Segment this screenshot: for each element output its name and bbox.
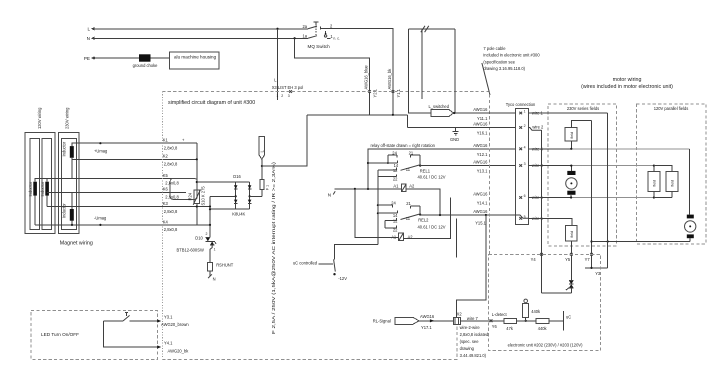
svg-text:K5: K5 xyxy=(163,173,169,178)
svg-text:wire 7: wire 7 xyxy=(467,316,479,321)
diode D16 top-right xyxy=(248,182,252,209)
wire L branch to relays riser xyxy=(262,115,307,166)
svg-text:Inductor: Inductor xyxy=(28,181,33,196)
wire switched L to X3 xyxy=(321,29,395,115)
label Y16.1 xyxy=(477,131,488,136)
node -12V xyxy=(333,273,347,281)
svg-text:AWG16_bk: AWG16_bk xyxy=(387,68,392,90)
svg-text:included in electronic unit #3: included in electronic unit #300 xyxy=(483,53,540,58)
wire bridge bottom bar xyxy=(210,208,250,210)
node L label xyxy=(87,27,90,32)
label AWG16 wire6 xyxy=(473,192,488,197)
svg-text:D16: D16 xyxy=(233,174,241,179)
junction wire5 Ldetect xyxy=(485,214,487,216)
svg-text:REL2: REL2 xyxy=(418,217,429,222)
wire5 drop to L-detect xyxy=(457,215,486,317)
svg-text:-12V: -12V xyxy=(338,276,347,281)
junction wire5 A2 xyxy=(439,214,441,216)
junction bridge AC right xyxy=(249,195,263,197)
svg-text:AWG16: AWG16 xyxy=(473,192,488,197)
junction K2 drop xyxy=(196,158,198,160)
wire triac bottom to Y4 xyxy=(542,288,572,293)
label REL1 xyxy=(420,169,431,174)
svg-text:AWG16_blue: AWG16_blue xyxy=(363,65,368,90)
svg-text:(spec. see: (spec. see xyxy=(460,339,480,344)
label AWG16 wire5 xyxy=(473,209,488,214)
junction N rail REL2 tap xyxy=(354,188,356,190)
relay REL2 coil xyxy=(391,233,413,240)
svg-text:AWG16: AWG16 xyxy=(473,107,488,112)
Tyco connection label xyxy=(506,102,536,107)
junction bridge AC left xyxy=(210,195,237,197)
wire 3 continuation xyxy=(529,165,654,167)
inductor ground choke xyxy=(133,54,159,68)
MQ Switch contact 1 lead xyxy=(327,34,340,41)
svg-text:1: 1 xyxy=(276,94,278,98)
svg-text:A2: A2 xyxy=(409,184,415,189)
wire K4 xyxy=(35,196,210,225)
svg-text:AWG16: AWG16 xyxy=(473,122,488,127)
wire motor230 top tap xyxy=(570,165,572,171)
label Y17.1 xyxy=(421,325,432,330)
MQ Switch label xyxy=(308,44,331,49)
svg-text:uC: uC xyxy=(566,315,571,320)
junction bk at node xyxy=(392,114,394,116)
svg-text:2,8x0,8: 2,8x0,8 xyxy=(165,181,179,186)
svg-text:LED Turn On/OFF: LED Turn On/OFF xyxy=(41,332,79,337)
svg-text:21: 21 xyxy=(406,201,411,206)
wire drop to wire2 xyxy=(407,115,409,128)
label relay off-state note xyxy=(371,143,436,148)
svg-text:Y3.1: Y3.1 xyxy=(164,314,173,319)
wire5 stub drop xyxy=(455,218,457,257)
svg-text:Y14.1: Y14.1 xyxy=(477,201,488,206)
wire D10 to shunt xyxy=(210,245,212,262)
label D16 xyxy=(233,174,241,179)
label Y11.1 xyxy=(477,116,488,121)
svg-text:22: 22 xyxy=(393,176,398,181)
wire cable segment top xyxy=(409,28,455,30)
label Y3 xyxy=(595,271,601,276)
label AWG20_brown xyxy=(161,322,189,327)
svg-text:D10: D10 xyxy=(195,235,203,240)
label RL-Signal xyxy=(373,318,391,323)
svg-text:11: 11 xyxy=(406,216,411,221)
svg-text:Y5: Y5 xyxy=(565,257,571,262)
label Y4.1 xyxy=(164,340,173,345)
label REL2 xyxy=(418,217,429,222)
diode D16 bottom-right xyxy=(248,200,252,204)
relay REL2 contact 22 xyxy=(385,220,398,232)
relay REL1 contact 21 xyxy=(409,150,421,165)
net label AWG16_blue rotated xyxy=(363,65,368,90)
wire K5 xyxy=(35,178,186,181)
relay REL2 contact 24 xyxy=(378,200,397,207)
magnet 120V outer box xyxy=(25,133,55,234)
junction field1 bottom xyxy=(570,141,572,150)
inductor 120V right xyxy=(40,181,49,196)
svg-text:F 1: F 1 xyxy=(266,185,270,190)
svg-text:12: 12 xyxy=(393,168,398,173)
junction N rail riser tap xyxy=(367,188,369,190)
svg-text:230V series fields: 230V series fields xyxy=(567,106,599,111)
terminal K5 labels xyxy=(163,173,180,186)
rotated label 120V wiring xyxy=(37,107,42,129)
svg-text:alu machine housing: alu machine housing xyxy=(174,54,217,59)
K5 K6 rounded outline xyxy=(170,179,197,200)
resistor 440k vertical xyxy=(523,299,541,321)
svg-text:7 pole cable: 7 pole cable xyxy=(483,46,506,51)
svg-text:21: 21 xyxy=(409,150,414,155)
label Y12.1 xyxy=(477,152,488,157)
svg-text:field: field xyxy=(570,231,574,237)
wire joined node horizontal xyxy=(307,114,407,116)
svg-text:(wires included in motor elect: (wires included in motor electronic unit… xyxy=(581,84,673,90)
wire AC left to D10 riser xyxy=(209,196,211,237)
relay REL1 contact 22 xyxy=(378,170,398,182)
MQ Switch contact 2 xyxy=(321,23,333,29)
unit 300 top boundary dashed xyxy=(162,91,489,93)
junction -Umag xyxy=(71,215,107,226)
unit 300 bottom boundary dashed xyxy=(162,324,457,360)
svg-text:Y3: Y3 xyxy=(595,271,601,276)
svg-text:field: field xyxy=(570,132,574,138)
svg-text:440k: 440k xyxy=(538,326,548,331)
230V series fields dashed box xyxy=(548,104,617,246)
LED box dashed xyxy=(31,310,157,359)
svg-text:40.61 / DC 12V: 40.61 / DC 12V xyxy=(418,174,446,179)
svg-text:simplified circuit diagram of: simplified circuit diagram of unit #300 xyxy=(168,100,255,106)
svg-text:K1: K1 xyxy=(163,138,169,143)
label Y15.1 xyxy=(475,220,486,225)
svg-text:24: 24 xyxy=(392,150,397,155)
Tyco pin 5 xyxy=(519,215,543,221)
svg-text:drawing 3.16.95.118.0): drawing 3.16.95.118.0) xyxy=(483,66,525,71)
wire K1 xyxy=(72,143,197,146)
svg-text:Y1.1: Y1.1 xyxy=(396,88,401,97)
junction rail Y7 xyxy=(590,240,592,242)
wire motor rail xyxy=(592,240,691,242)
Tyco connector box xyxy=(516,109,529,225)
net tag RL hexagon xyxy=(395,317,419,324)
magnet 120V inner box B xyxy=(42,139,52,230)
junction on L line xyxy=(276,28,278,30)
wire REL2 A1 to N xyxy=(355,189,399,237)
wire cable stub down xyxy=(421,29,423,99)
wire shunt to N tag xyxy=(209,271,211,276)
wire N line xyxy=(92,37,308,39)
cable hash marks xyxy=(421,26,429,32)
wire L_switched left drop xyxy=(409,29,431,113)
wire 4 continuation xyxy=(529,148,690,150)
svg-text:2: 2 xyxy=(281,94,283,98)
svg-text:A1: A1 xyxy=(393,184,399,189)
wire REL1 A2 to wire5 xyxy=(406,189,440,215)
switch uC controlled xyxy=(293,259,335,271)
ground GND xyxy=(450,128,459,142)
junction L_switched xyxy=(453,112,455,114)
svg-text:Inductor: Inductor xyxy=(61,203,66,218)
svg-text:(specification see: (specification see xyxy=(483,59,515,64)
wire bridge top bar xyxy=(197,181,250,183)
svg-text:n. c.: n. c. xyxy=(333,37,340,41)
svg-text:wire 2: wire 2 xyxy=(532,125,544,130)
svg-text:1a: 1a xyxy=(302,34,307,39)
svg-text:2,8x0,8: 2,8x0,8 xyxy=(164,146,178,151)
alu machine housing box xyxy=(170,52,220,69)
relay REL2 blade 11 xyxy=(401,214,422,221)
wire 5 continuation xyxy=(516,215,572,225)
label Y5 xyxy=(565,257,571,262)
Tyco pin 1 xyxy=(519,110,543,116)
fuse F1 xyxy=(260,159,270,196)
terminal K3 labels xyxy=(163,201,178,214)
Tyco pin 4 xyxy=(519,145,543,151)
svg-text:Inductor: Inductor xyxy=(40,181,45,196)
label Magnet wiring xyxy=(60,241,93,247)
svg-text:22: 22 xyxy=(393,227,398,232)
svg-text:Y13.1: Y13.1 xyxy=(477,169,488,174)
label wire 7 xyxy=(467,316,479,321)
relay REL2 common 14 xyxy=(378,211,398,218)
unit 300 left boundary dotted xyxy=(161,92,163,360)
svg-text:2a: 2a xyxy=(302,24,307,29)
svg-text:14: 14 xyxy=(394,163,399,168)
riser Y4 xyxy=(540,130,543,293)
label AWG16 wire3 xyxy=(473,160,488,165)
electronic unit dashed box xyxy=(489,254,601,350)
label AWG20_bk xyxy=(168,348,190,353)
node N label xyxy=(87,36,90,41)
wire K3 xyxy=(47,196,210,207)
field 120V left xyxy=(648,172,660,192)
terminal K2 labels xyxy=(163,154,178,167)
riser Y7 xyxy=(590,121,593,268)
svg-text:uC controlled: uC controlled xyxy=(293,261,318,266)
wire L line xyxy=(92,28,308,30)
leader 7 pole cable xyxy=(482,63,490,95)
switch LED xyxy=(123,313,130,321)
label AWG16 wire2 xyxy=(473,122,488,127)
net label Y2.1 rotated xyxy=(373,88,378,97)
svg-text:AWG16: AWG16 xyxy=(420,314,435,319)
wire 2 to Y4 riser xyxy=(529,128,542,131)
junction Y7 Y3 xyxy=(590,267,592,269)
svg-text:RSHUNT: RSHUNT xyxy=(216,262,234,267)
relay REL2 contact 21 xyxy=(406,201,420,214)
svg-text:4: 4 xyxy=(524,145,526,149)
wire N rail xyxy=(335,188,402,190)
wire to uC terminal xyxy=(549,311,571,331)
MQ Switch mechanical link xyxy=(315,26,317,35)
resistor 47k xyxy=(504,318,517,331)
junction 120V fields bottom xyxy=(653,192,672,199)
net label AWG16_bk rotated xyxy=(387,68,392,90)
svg-text:AWG16: AWG16 xyxy=(473,160,488,165)
wire K6 xyxy=(47,178,186,209)
svg-text:L-detect: L-detect xyxy=(492,312,508,317)
svg-text:Y15.1: Y15.1 xyxy=(475,220,486,225)
svg-text:Y4.1: Y4.1 xyxy=(164,340,173,345)
wire field1 top to Y7 riser xyxy=(571,121,591,128)
wire 2 xyxy=(408,127,516,129)
svg-text:AWG20_bk: AWG20_bk xyxy=(168,348,190,353)
wire REL2 A2 riser to wire6 xyxy=(403,198,450,239)
relay REL1 common 14 xyxy=(368,160,399,168)
label wire-2-wire block xyxy=(460,325,489,358)
svg-text:+Umag: +Umag xyxy=(94,149,108,154)
terminal K4 labels xyxy=(163,219,178,232)
wire Y3.1 xyxy=(104,319,162,322)
svg-text:electronic unit #202 (230V) /: electronic unit #202 (230V) / #203 (120V… xyxy=(508,343,584,348)
svg-text:N: N xyxy=(87,36,90,41)
wire motor230 bottom tap xyxy=(570,195,572,199)
riser Y5 xyxy=(570,241,573,280)
svg-text:Inductor: Inductor xyxy=(61,141,66,156)
junction bridge top tap xyxy=(196,181,198,183)
svg-text:Y16.1: Y16.1 xyxy=(477,131,488,136)
svg-text:N: N xyxy=(328,193,331,198)
svg-text:field: field xyxy=(671,180,675,186)
svg-text:field: field xyxy=(653,180,657,186)
node N mid label xyxy=(328,191,336,197)
motor M 230V xyxy=(566,171,577,195)
wire N riser to wire4 xyxy=(368,149,516,189)
svg-text:11: 11 xyxy=(406,167,411,172)
wire 6 continuation xyxy=(529,197,672,199)
wire L_switched right drop xyxy=(454,29,456,113)
svg-text:GND: GND xyxy=(450,137,459,142)
wire 1 L_switched to pin1 xyxy=(454,112,515,114)
svg-text:120V wiring: 120V wiring xyxy=(37,107,42,129)
svg-text:2,8x0,8: 2,8x0,8 xyxy=(164,227,178,232)
motor wiring outer dashed box xyxy=(489,92,491,255)
svg-text:Magnet wiring: Magnet wiring xyxy=(60,241,93,247)
resistor 440k horizontal xyxy=(536,318,549,331)
svg-text:Y11.1: Y11.1 xyxy=(477,116,488,121)
wire 47k to 440k xyxy=(517,320,537,322)
svg-text:1: 1 xyxy=(214,247,216,251)
junction REL2 14 tap xyxy=(377,212,379,214)
Tyco pin 2 xyxy=(519,124,544,130)
svg-text:RL-Signal: RL-Signal xyxy=(373,318,391,323)
label REL1 rating xyxy=(418,174,446,179)
wire5 from REL2 xyxy=(420,214,515,216)
junction on N line xyxy=(294,37,296,39)
svg-text:K2: K2 xyxy=(163,154,169,159)
svg-text:Y12.1: Y12.1 xyxy=(477,152,488,157)
junction riser common REL1 xyxy=(367,162,369,164)
svg-text:2,8x0,8: 2,8x0,8 xyxy=(164,209,178,214)
magnet 230V inner box xyxy=(62,139,77,230)
node L-detect xyxy=(490,312,508,329)
wire K2 xyxy=(72,158,197,179)
svg-text:ground choke: ground choke xyxy=(133,63,159,68)
svg-text:K4: K4 xyxy=(163,219,169,224)
relay REL2 contact 12 xyxy=(385,218,398,223)
svg-text:X2: X2 xyxy=(457,311,463,316)
Tyco pin 3 xyxy=(519,162,543,168)
field 230V upper xyxy=(565,127,577,141)
svg-text:drawing: drawing xyxy=(460,346,475,351)
diode D16 top-left xyxy=(234,182,238,209)
motor M 120V xyxy=(685,215,696,239)
label Y3.1 xyxy=(164,314,173,319)
X3 terminal label xyxy=(272,78,304,90)
field 230V lower xyxy=(565,225,577,241)
label Y7 xyxy=(585,257,591,262)
svg-text:Y17.1: Y17.1 xyxy=(421,325,432,330)
svg-text:440k: 440k xyxy=(531,309,541,314)
label REL2 rating xyxy=(418,224,446,229)
svg-text:N: N xyxy=(213,277,216,282)
svg-text:X3 LIST EH 3 pol: X3 LIST EH 3 pol xyxy=(272,85,304,90)
MQ Switch actuator tick xyxy=(313,22,318,25)
terminal K6 labels xyxy=(163,187,180,200)
Tyco pin 6 xyxy=(519,194,543,200)
triac D10 xyxy=(195,232,216,252)
label BTB12-600SW xyxy=(177,248,204,253)
junction L branch xyxy=(261,165,263,167)
svg-text:L: L xyxy=(87,27,90,32)
wire L drop to X3 pin1 xyxy=(277,29,279,100)
svg-text:F 2,5A / 250V (1,5kA@250V AC i: F 2,5A / 250V (1,5kA@250V AC interrupt r… xyxy=(271,161,276,334)
MQ Switch pole 1a blade xyxy=(302,34,317,39)
node PE label xyxy=(84,56,90,61)
resistor RSHUNT xyxy=(208,262,234,271)
junction 120V fields top xyxy=(653,165,672,172)
riser Y3 xyxy=(585,113,608,268)
svg-text:wire-2-wire: wire-2-wire xyxy=(460,325,481,330)
inductor 230V bottom xyxy=(61,203,74,221)
svg-text:3.44.49.821.0): 3.44.49.821.0) xyxy=(460,353,487,358)
wire R24 to K3 xyxy=(196,204,198,225)
svg-text:K3: K3 xyxy=(163,201,169,206)
wire 1 to Y3 riser xyxy=(529,112,608,114)
svg-text:2: 2 xyxy=(524,124,526,128)
magnet 120V inner box A xyxy=(30,139,40,230)
svg-text:14: 14 xyxy=(393,213,398,218)
label motor wiring xyxy=(581,77,673,90)
diode D16 bottom-left xyxy=(234,200,238,204)
label Y14.1 xyxy=(477,201,488,206)
svg-text:motor wiring: motor wiring xyxy=(613,77,642,83)
magnet 230V outer box xyxy=(59,133,79,234)
120V parallel fields dashed box xyxy=(637,104,707,244)
net tag N bottom xyxy=(208,274,216,281)
svg-text:Y4: Y4 xyxy=(531,257,537,262)
svg-text:2,8x0,8 isolated: 2,8x0,8 isolated xyxy=(460,332,489,337)
label simplified circuit diagram xyxy=(168,100,255,106)
wire L tag to fuse xyxy=(261,159,263,178)
svg-text:REL1: REL1 xyxy=(420,169,431,174)
relay REL1 contact 24 xyxy=(387,150,398,164)
relay REL1 blade 11 xyxy=(401,165,422,172)
rotated label 230V wiring xyxy=(65,107,70,129)
junction REL2 24 tap xyxy=(377,204,379,206)
triac electronic unit xyxy=(566,281,574,291)
relay REL1 coil xyxy=(393,184,415,192)
junction divider xyxy=(525,320,527,322)
svg-text:K6: K6 xyxy=(163,187,169,192)
wire choke to housing xyxy=(151,57,170,59)
net tag L_switched xyxy=(429,104,454,116)
label electronic unit xyxy=(508,343,584,348)
relay REL1 contact 12 xyxy=(378,168,398,174)
svg-text:6: 6 xyxy=(524,194,526,198)
svg-text:R24: R24 xyxy=(188,192,193,200)
label AWG16 wire4 xyxy=(473,143,488,148)
